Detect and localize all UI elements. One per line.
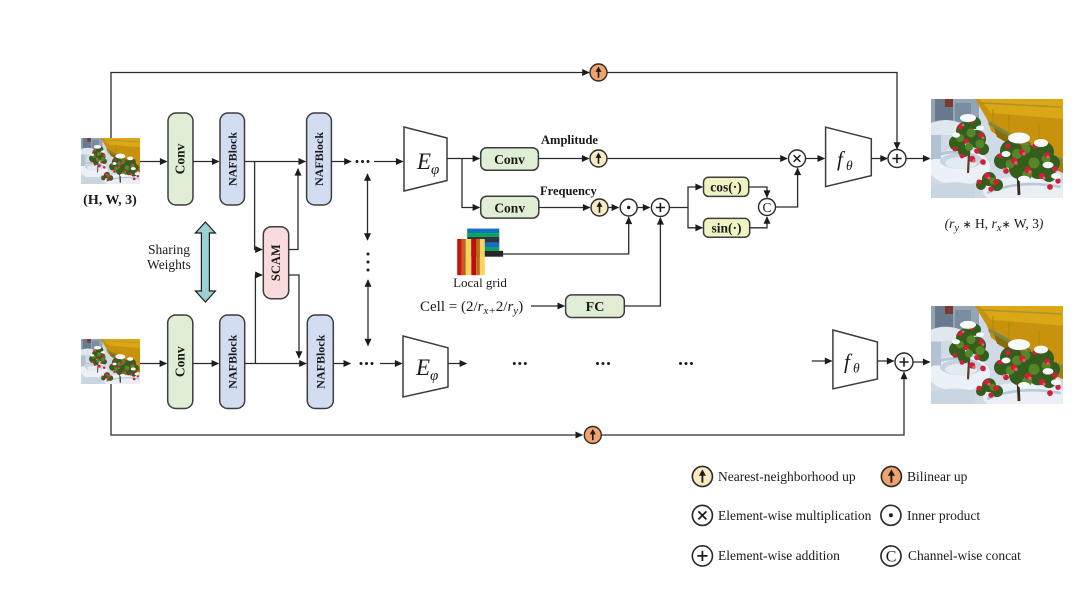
legend addition	[692, 546, 712, 566]
svg-text:Conv: Conv	[173, 143, 188, 174]
wire ConvA to NN1	[538, 158, 588, 160]
wire oadd to cos	[669, 187, 702, 208]
double arrow lower	[367, 280, 369, 346]
wire Conv to NAFBlock1	[193, 161, 219, 163]
wire Ephi out bottom	[448, 363, 466, 365]
encoder Ephi bottom	[403, 336, 448, 397]
adder A3	[895, 353, 913, 371]
multiplier M1	[789, 150, 806, 167]
wire bottom bypass right	[601, 372, 904, 435]
svg-text:NAFBlock: NAFBlock	[225, 334, 239, 388]
wire image to Conv bottom	[140, 363, 166, 365]
svg-text:(H, W, 3): (H, W, 3)	[83, 193, 137, 208]
dots top row	[356, 160, 370, 163]
block NAFBlock1 top	[220, 113, 245, 205]
decoder ftheta top	[826, 127, 872, 186]
wire bottom bypass left	[111, 384, 582, 435]
wire Ephi to ConvA	[447, 158, 479, 160]
legend inner product	[881, 505, 901, 525]
wire FC to oadd	[624, 218, 660, 306]
wire NAFBlock1 to NAFBlock2	[245, 161, 306, 163]
svg-text:Weights: Weights	[147, 257, 191, 272]
wire branch to ConvF	[462, 159, 479, 208]
wire grid to odot	[503, 217, 629, 254]
bilinear up B2	[584, 427, 601, 444]
svg-text:Nearest-neighborhood up: Nearest-neighborhood up	[718, 469, 856, 484]
svg-text:NAFBlock: NAFBlock	[226, 132, 240, 186]
wire sin to concat	[750, 217, 767, 228]
nearest-up N2	[591, 199, 608, 216]
wire NAFBlock1 to NAFBlock2 bottom	[245, 363, 306, 365]
input image bottom	[80, 339, 142, 388]
svg-text:Element-wise multiplication: Element-wise multiplication	[718, 508, 872, 523]
dots vertical	[367, 253, 370, 272]
wire adder to output bottom	[913, 361, 930, 363]
wire top bypass right	[607, 73, 897, 150]
svg-text:NAFBlock: NAFBlock	[312, 132, 326, 186]
svg-text:NAFBlock: NAFBlock	[313, 334, 327, 388]
svg-text:Conv: Conv	[494, 201, 525, 216]
wire into ftheta bottom	[812, 360, 832, 362]
wire top bypass left	[111, 73, 589, 139]
wire SCAM to top row	[289, 169, 298, 250]
double arrow upper	[367, 174, 369, 240]
legend bilinear	[881, 466, 901, 486]
block cos	[704, 177, 749, 196]
output image bottom	[928, 306, 1067, 412]
wire Conv to NAFBlock1 bottom	[193, 363, 219, 365]
legend nearest-up	[692, 466, 712, 486]
bilinear up B1	[590, 64, 607, 81]
decoder ftheta bottom	[833, 330, 878, 389]
svg-text:θ: θ	[846, 158, 853, 173]
wire concat to omul	[776, 168, 798, 207]
block NAFBlock2 bottom	[307, 315, 333, 409]
svg-text:Local grid: Local grid	[453, 275, 507, 290]
svg-text:Conv: Conv	[172, 346, 187, 377]
block Conv top	[168, 113, 193, 205]
wire odot to oadd	[637, 207, 649, 209]
wire adder to output	[906, 158, 930, 160]
dots b1	[513, 362, 527, 365]
wire image to Conv	[140, 161, 167, 163]
block Conv amplitude	[481, 148, 539, 171]
svg-text:cos(·): cos(·)	[710, 180, 742, 195]
svg-text:Conv: Conv	[494, 152, 525, 167]
block sin	[704, 218, 750, 237]
svg-text:φ: φ	[431, 162, 439, 178]
dots b2	[596, 362, 610, 365]
svg-text:Amplitude: Amplitude	[541, 133, 598, 147]
wire NAFBlock2 out	[331, 161, 351, 163]
block SCAM	[263, 227, 288, 299]
svg-text:θ: θ	[853, 361, 860, 376]
encoder Ephi top	[404, 127, 447, 191]
svg-text:SCAM: SCAM	[269, 244, 283, 281]
svg-text:sin(·): sin(·)	[711, 221, 741, 236]
wire bottom to SCAM	[255, 275, 262, 364]
svg-text:Channel-wise concat: Channel-wise concat	[908, 548, 1021, 563]
block NAFBlock1 bottom	[220, 315, 245, 409]
svg-text:Element-wise addition: Element-wise addition	[718, 548, 840, 563]
svg-text:Inner product: Inner product	[907, 508, 980, 523]
wire NAFBlock2 out bottom	[333, 363, 350, 365]
svg-text:E: E	[415, 355, 430, 380]
inner product P1	[620, 199, 637, 216]
svg-text:Frequency: Frequency	[540, 184, 597, 198]
block Conv bottom	[168, 315, 193, 409]
wire cos to concat	[749, 187, 767, 197]
input image top	[80, 138, 142, 188]
svg-text:FC: FC	[586, 300, 605, 315]
wire top to SCAM	[255, 162, 262, 250]
local grid front square	[457, 239, 485, 275]
output image top	[928, 99, 1067, 206]
block NAFBlock2 top	[307, 113, 332, 205]
wire SCAM to bottom row	[289, 275, 299, 358]
svg-text:Sharing: Sharing	[148, 242, 190, 257]
local grid back square	[467, 229, 503, 257]
block Conv frequency	[481, 196, 539, 218]
wire ConvF to NN2	[539, 207, 590, 209]
dots bottom row	[360, 362, 374, 365]
nearest-up N1	[590, 150, 607, 167]
svg-text:Cell = (2/rx+2/ry): Cell = (2/rx+2/ry)	[420, 299, 523, 317]
sharing weights arrow	[195, 222, 215, 302]
adder A2	[888, 150, 906, 168]
svg-text:E: E	[416, 149, 431, 174]
wire N1 to omul	[607, 158, 787, 160]
wire dots to Ephi bottom	[380, 363, 402, 365]
wire ftheta to adder	[871, 158, 887, 160]
wire ftheta to adder bottom	[877, 360, 893, 362]
wire branch to sin	[688, 208, 702, 228]
wire N2 to odot	[608, 207, 618, 209]
svg-text:φ: φ	[430, 368, 438, 384]
legend multiplication	[692, 505, 712, 525]
legend concat	[881, 546, 901, 566]
adder A1	[651, 199, 669, 217]
svg-text:Bilinear up: Bilinear up	[907, 469, 968, 484]
concat C1	[759, 199, 776, 216]
wire dots to Ephi	[374, 161, 403, 163]
wire cell to FC	[531, 305, 564, 307]
block FC	[566, 295, 625, 318]
dots b3	[679, 362, 693, 365]
wire omul to ftheta	[806, 158, 825, 160]
